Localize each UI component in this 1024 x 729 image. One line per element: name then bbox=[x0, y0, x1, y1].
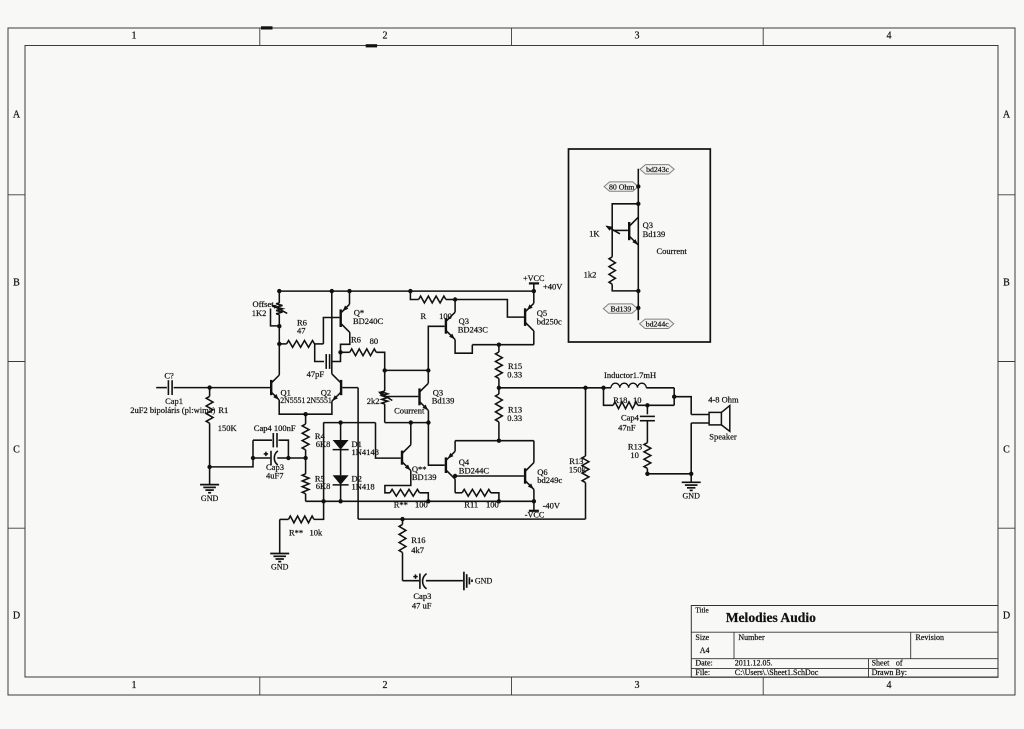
svg-text:1k2: 1k2 bbox=[584, 270, 597, 280]
wire: Q6 base tap bbox=[455, 475, 524, 477]
svg-text:47 uF: 47 uF bbox=[412, 601, 432, 611]
capacitor Cap4 47nF bbox=[646, 405, 648, 414]
sub-circuit box bbox=[569, 149, 711, 342]
svg-text:2k2: 2k2 bbox=[367, 396, 380, 406]
transistor Q5 bd250c bbox=[524, 308, 526, 326]
svg-text:bd243c: bd243c bbox=[646, 165, 669, 174]
ground bbox=[209, 467, 211, 485]
wire bbox=[210, 440, 253, 467]
svg-text:GND: GND bbox=[271, 563, 289, 572]
svg-text:1K: 1K bbox=[589, 229, 600, 239]
svg-text:BD243C: BD243C bbox=[458, 325, 489, 335]
svg-text:2: 2 bbox=[383, 31, 388, 42]
svg-text:100: 100 bbox=[439, 311, 452, 321]
capacitor Cap3 4uF7 (polarized) bbox=[253, 457, 270, 459]
svg-text:10: 10 bbox=[630, 450, 639, 460]
resistor R13 0.33 bbox=[498, 388, 500, 394]
svg-text:2: 2 bbox=[383, 680, 388, 691]
resistor R6 80 bbox=[341, 351, 350, 353]
wire: Q4 base bbox=[428, 423, 444, 466]
transistor Q3 Bd139 (box) bbox=[628, 222, 630, 240]
svg-text:B: B bbox=[13, 278, 20, 289]
resistor R4 6K8 bbox=[305, 414, 307, 424]
wire: left loop bbox=[612, 204, 638, 257]
svg-text:-40V: -40V bbox=[543, 501, 561, 511]
svg-text:File:: File: bbox=[695, 668, 710, 677]
resistor R** 100 bbox=[385, 471, 411, 493]
svg-text:1K2: 1K2 bbox=[252, 308, 267, 318]
svg-text:Bd139: Bd139 bbox=[611, 304, 632, 313]
svg-text:4-8 Ohm: 4-8 Ohm bbox=[708, 394, 739, 404]
svg-text:10: 10 bbox=[633, 395, 642, 405]
net label 80 Ohm bbox=[604, 182, 638, 191]
resistor R16 4k7 bbox=[402, 519, 404, 524]
wire: Q2 base / feedback bbox=[342, 387, 358, 389]
svg-text:GND: GND bbox=[475, 576, 493, 585]
net label bd244c bbox=[640, 319, 674, 328]
column dividers bbox=[259, 28, 261, 46]
resistor R** 10k bbox=[280, 518, 289, 520]
svg-text:R**: R** bbox=[289, 527, 303, 537]
wire: bias transistor base bbox=[385, 396, 419, 398]
node bbox=[636, 202, 640, 206]
row dividers bbox=[8, 194, 25, 196]
svg-text:2N5551: 2N5551 bbox=[280, 396, 305, 405]
potentiometer 1K wiper bbox=[607, 226, 620, 234]
svg-text:R16: R16 bbox=[411, 535, 425, 545]
transistor Q** BD139 bbox=[401, 451, 403, 465]
svg-text:150K: 150K bbox=[218, 423, 238, 433]
svg-text:-VCC: -VCC bbox=[525, 511, 545, 520]
wire: Q3 base bbox=[612, 229, 628, 231]
svg-text:1: 1 bbox=[132, 680, 137, 691]
svg-text:B: B bbox=[1003, 278, 1010, 289]
svg-text:0.33: 0.33 bbox=[507, 370, 522, 380]
capacitor Cap4 100nF bbox=[253, 439, 272, 441]
svg-text:R1: R1 bbox=[218, 405, 228, 415]
svg-text:1N418: 1N418 bbox=[352, 482, 375, 492]
svg-text:bd244c: bd244c bbox=[646, 320, 669, 329]
transistor Q3 Bd139 bbox=[418, 388, 420, 405]
svg-text:+VCC: +VCC bbox=[523, 274, 545, 283]
resistor R13 150k bbox=[585, 388, 587, 456]
node bbox=[207, 385, 211, 389]
svg-text:Sheet: Sheet bbox=[872, 659, 891, 668]
svg-text:150k: 150k bbox=[569, 464, 587, 474]
svg-text:Cap3: Cap3 bbox=[413, 591, 431, 601]
capacitor 47pF bbox=[315, 344, 324, 362]
wire: bias line (left) bbox=[324, 422, 376, 424]
svg-text:R6: R6 bbox=[351, 335, 361, 345]
wire: to Q* base bbox=[323, 318, 339, 344]
svg-text:Speaker: Speaker bbox=[709, 431, 737, 441]
wire bbox=[385, 369, 429, 371]
svg-text:A4: A4 bbox=[700, 646, 710, 655]
wire: input bbox=[156, 387, 167, 389]
svg-text:2011.12.05.: 2011.12.05. bbox=[735, 659, 773, 668]
svg-text:47: 47 bbox=[297, 326, 306, 336]
wire: to Q5 base bbox=[455, 300, 524, 318]
capacitor Cap3 47uF (polarized) bbox=[403, 580, 420, 582]
wire: box main vertical bbox=[637, 169, 639, 320]
svg-text:bd250c: bd250c bbox=[537, 316, 562, 326]
ground bbox=[279, 519, 281, 553]
transistor Q1 2N5551 bbox=[270, 380, 272, 395]
node: emitters bbox=[303, 412, 307, 416]
svg-text:C?: C? bbox=[164, 371, 174, 381]
net label Bd139 bbox=[603, 304, 637, 313]
ground (sideways) bbox=[463, 572, 465, 591]
transistor Q6 bd249c bbox=[524, 468, 526, 483]
node bbox=[636, 289, 640, 293]
svg-text:BD139: BD139 bbox=[412, 472, 437, 482]
svg-text:Bd139: Bd139 bbox=[432, 395, 455, 405]
svg-text:80 Ohm: 80 Ohm bbox=[609, 182, 634, 191]
svg-text:Bd139: Bd139 bbox=[643, 229, 666, 239]
speaker bbox=[691, 414, 709, 416]
wire: bias line (right) bbox=[385, 422, 429, 424]
svg-text:1N4148: 1N4148 bbox=[352, 447, 379, 457]
svg-text:GND: GND bbox=[201, 494, 219, 503]
capacitor C? Cap1 bbox=[167, 380, 169, 395]
svg-text:Cap4 100nF: Cap4 100nF bbox=[254, 423, 296, 433]
svg-text:Courrent: Courrent bbox=[394, 405, 425, 415]
transistor Q3 BD243C bbox=[445, 318, 447, 334]
wire: +V rail bbox=[279, 290, 534, 292]
transistor Q* BD240C bbox=[340, 309, 342, 327]
svg-text:3: 3 bbox=[635, 31, 640, 42]
node bbox=[383, 368, 387, 372]
svg-text:Size: Size bbox=[695, 633, 709, 642]
wire: VAS base bbox=[428, 326, 444, 370]
svg-text:0.33: 0.33 bbox=[507, 413, 522, 423]
svg-text:80: 80 bbox=[370, 336, 379, 346]
+VCC power symbol bbox=[529, 282, 539, 284]
svg-text:Date:: Date: bbox=[695, 659, 712, 668]
svg-text:+40V: +40V bbox=[543, 282, 563, 292]
wire bbox=[612, 284, 638, 291]
svg-text:C: C bbox=[1003, 445, 1010, 456]
svg-text:D: D bbox=[13, 611, 20, 622]
transistor Q2 2N5551 bbox=[340, 380, 342, 395]
resistor R11 100 bbox=[455, 492, 462, 494]
svg-text:R18: R18 bbox=[613, 395, 627, 405]
resistor R18 10 bbox=[604, 388, 614, 406]
svg-text:Melodies Audio: Melodies Audio bbox=[726, 610, 816, 625]
potentiometer Offset 1K2 bbox=[278, 291, 280, 303]
wire: Q** base riser bbox=[376, 423, 401, 459]
svg-text:4uF7: 4uF7 bbox=[266, 470, 283, 480]
svg-text:Revision: Revision bbox=[916, 633, 944, 642]
resistor 1k2 bbox=[609, 257, 615, 284]
scan tick marks bbox=[261, 26, 273, 29]
transistor Q4 BD244C bbox=[445, 457, 447, 473]
node: 80 Ohm junction bbox=[636, 184, 640, 188]
svg-text:A: A bbox=[1003, 110, 1011, 121]
resistor R5 6K8 bbox=[305, 458, 307, 474]
svg-text:4: 4 bbox=[887, 31, 892, 42]
node bbox=[277, 342, 281, 346]
potentiometer 2k2 bbox=[384, 370, 386, 391]
svg-text:1: 1 bbox=[132, 31, 137, 42]
svg-text:Drawn By:: Drawn By: bbox=[872, 668, 907, 677]
-VCC power symbol bbox=[533, 501, 535, 511]
wire: output stage top bbox=[455, 440, 534, 442]
resistor R15 0.33 bbox=[498, 345, 500, 352]
resistor R1 150K bbox=[209, 388, 211, 397]
svg-text:C: C bbox=[13, 445, 20, 456]
svg-text:of: of bbox=[896, 659, 903, 668]
wire: output node bbox=[499, 387, 604, 389]
resistor R6 47 bbox=[279, 343, 286, 345]
wire: emitter bus bbox=[472, 344, 534, 346]
svg-text:47pF: 47pF bbox=[307, 369, 325, 379]
svg-text:47nF: 47nF bbox=[618, 422, 636, 432]
svg-text:Number: Number bbox=[738, 633, 765, 642]
wire bbox=[288, 457, 304, 459]
svg-text:R: R bbox=[421, 311, 427, 321]
resistor R13 10 bbox=[644, 443, 651, 469]
wire: to speaker bbox=[672, 395, 676, 399]
node bbox=[636, 306, 640, 310]
svg-text:A: A bbox=[13, 110, 21, 121]
svg-text:Inductor1.7mH: Inductor1.7mH bbox=[604, 370, 656, 380]
svg-text:Cap4: Cap4 bbox=[621, 412, 640, 422]
wire: left drop bbox=[323, 422, 325, 501]
diode D1 1N4148 bbox=[338, 420, 342, 424]
svg-text:bd249c: bd249c bbox=[537, 475, 562, 485]
resistor R 100 bbox=[410, 291, 418, 299]
svg-text:C:\Users\.\Sheet1.SchDoc: C:\Users\.\Sheet1.SchDoc bbox=[735, 668, 819, 677]
net label bd243c bbox=[640, 165, 674, 174]
svg-text:10k: 10k bbox=[310, 527, 324, 537]
title block bbox=[691, 606, 998, 678]
svg-text:3: 3 bbox=[635, 680, 640, 691]
diode D2 1N418 bbox=[340, 450, 342, 476]
svg-text:GND: GND bbox=[683, 492, 701, 501]
svg-text:4: 4 bbox=[887, 680, 892, 691]
svg-text:2N5551: 2N5551 bbox=[307, 396, 332, 405]
wire bbox=[690, 423, 692, 474]
svg-text:4k7: 4k7 bbox=[411, 545, 424, 555]
ground bbox=[690, 474, 692, 483]
svg-text:Courrent: Courrent bbox=[657, 246, 688, 256]
wire: feedback bus bbox=[358, 518, 585, 520]
svg-text:2uF2 bipoláris (pl:wima): 2uF2 bipoláris (pl:wima) bbox=[130, 405, 215, 415]
svg-text:BD244C: BD244C bbox=[459, 466, 490, 476]
svg-text:D: D bbox=[1003, 611, 1010, 622]
wire: -V bus bbox=[306, 500, 534, 502]
svg-text:BD240C: BD240C bbox=[353, 316, 384, 326]
svg-text:Title: Title bbox=[695, 606, 708, 614]
